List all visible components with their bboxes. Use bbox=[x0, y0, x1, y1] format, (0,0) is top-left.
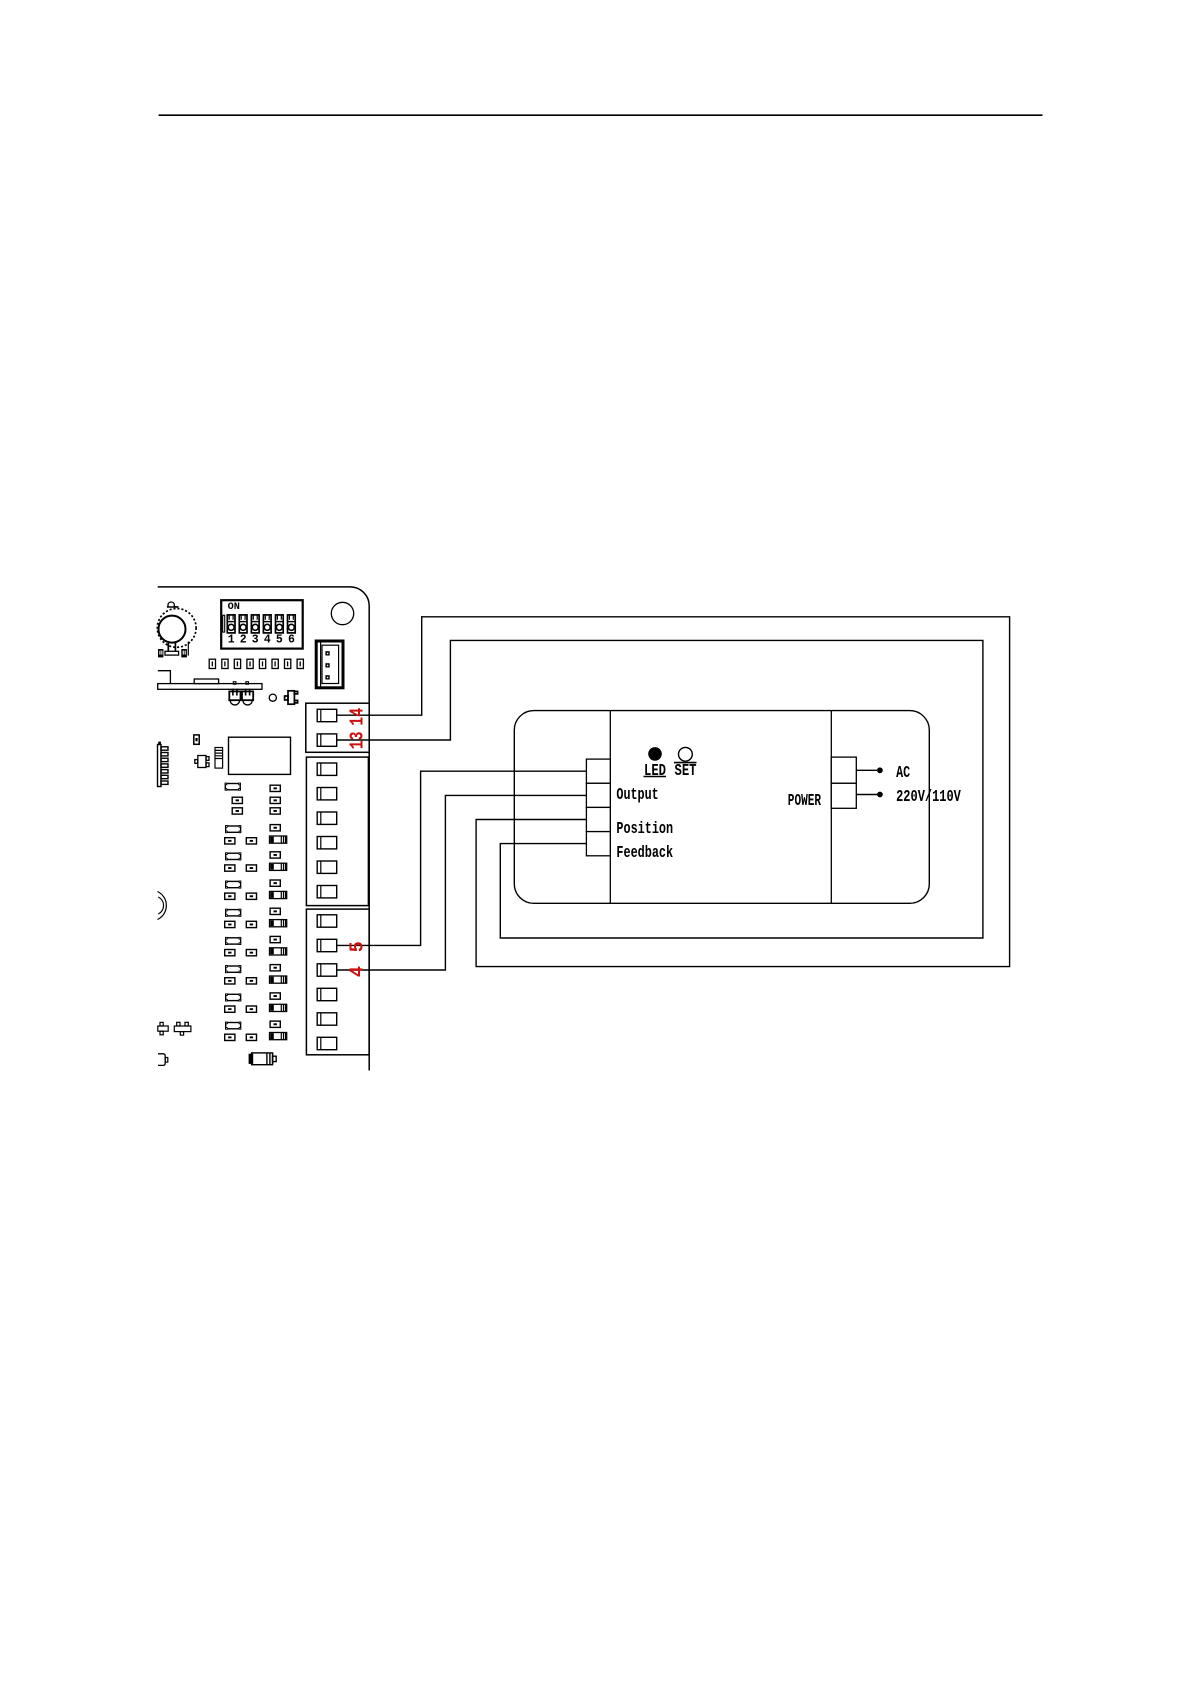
box left pin Output2 bbox=[586, 783, 610, 807]
AC lead wire bbox=[856, 769, 877, 771]
resistor row bbox=[209, 659, 303, 668]
J4 pins bbox=[317, 763, 337, 898]
svg-text:AC: AC bbox=[896, 764, 910, 783]
transistor Q2 bbox=[195, 756, 209, 768]
terminal block J5 bbox=[306, 909, 369, 1055]
SET button bbox=[679, 747, 693, 761]
jumper JP1 bbox=[158, 1022, 168, 1034]
svg-text:SET: SET bbox=[675, 762, 697, 781]
small square D1 bbox=[194, 735, 199, 744]
SMD group 2 bbox=[225, 852, 287, 871]
electrolytic capacitor C10 bbox=[249, 1053, 276, 1065]
SMD group 7 bbox=[225, 993, 287, 1012]
svg-text:Output: Output bbox=[616, 786, 658, 805]
svg-text:6: 6 bbox=[288, 633, 295, 646]
DIP switch SW1 bbox=[221, 600, 303, 648]
svg-text:13: 13 bbox=[347, 732, 369, 750]
svg-text:2: 2 bbox=[240, 633, 247, 646]
controller box outline bbox=[514, 711, 929, 904]
PCB board outline bbox=[158, 587, 370, 1071]
test point TP1 bbox=[269, 694, 276, 701]
svg-text:1: 1 bbox=[228, 633, 235, 646]
svg-text:POWER: POWER bbox=[788, 792, 822, 811]
box right pin AC2 bbox=[831, 783, 856, 808]
connector J6 (edge comb) bbox=[158, 742, 169, 787]
mounting hole bbox=[331, 602, 353, 624]
svg-text:4: 4 bbox=[264, 633, 271, 646]
svg-text:5: 5 bbox=[347, 941, 369, 952]
svg-text:14: 14 bbox=[347, 708, 369, 726]
svg-text:220V/110V: 220V/110V bbox=[896, 788, 961, 807]
jumper JP2 bbox=[174, 1022, 191, 1035]
SMD group 3 bbox=[225, 880, 287, 899]
svg-text:ON: ON bbox=[228, 601, 240, 613]
connector J2 (3-pin) bbox=[316, 641, 343, 688]
box left pin Feedback bbox=[586, 832, 610, 856]
SMD group 5 bbox=[225, 936, 287, 955]
header rule bbox=[159, 114, 1043, 116]
box left pin Position bbox=[586, 807, 610, 831]
wire pin14 to Position bbox=[337, 617, 1010, 967]
J5 pins bbox=[317, 915, 337, 1050]
terminal block J3 bbox=[306, 703, 369, 752]
SMD group 6 bbox=[225, 965, 287, 984]
box right divider bbox=[830, 710, 832, 903]
box right pin AC1 bbox=[831, 757, 856, 783]
bracket component bbox=[158, 1054, 165, 1066]
capacitor C2 bbox=[242, 682, 253, 705]
svg-text:Position: Position bbox=[616, 820, 673, 839]
wire pin4 to Output2 bbox=[337, 795, 587, 970]
J3 pin 13 bbox=[317, 734, 337, 746]
SMD group A bbox=[225, 783, 241, 791]
IC bar U2 bbox=[158, 671, 262, 690]
terminal block J4 bbox=[306, 757, 368, 906]
wire pin13 to Feedback bbox=[337, 640, 983, 938]
SMD group 4 bbox=[225, 908, 287, 927]
box left pin Output1 bbox=[586, 759, 610, 783]
transistor Q1 bbox=[285, 691, 298, 704]
potentiometer VR1 bbox=[157, 602, 196, 657]
relay K1 bbox=[229, 737, 291, 774]
LED indicator bbox=[648, 747, 662, 761]
220V lead wire bbox=[856, 794, 877, 796]
svg-text:Feedback: Feedback bbox=[616, 844, 673, 863]
svg-text:5: 5 bbox=[276, 633, 283, 646]
SMD group 8 bbox=[225, 1021, 287, 1040]
J3 pin 14 bbox=[317, 709, 337, 721]
svg-text:4: 4 bbox=[347, 966, 369, 977]
svg-text:LED: LED bbox=[644, 762, 666, 781]
SMD group 1 bbox=[225, 825, 287, 844]
inductor L1 bbox=[215, 748, 223, 769]
capacitor C1 bbox=[229, 682, 240, 705]
crystal arcs bbox=[158, 892, 167, 920]
DIP switch positions 1-6 bbox=[227, 615, 295, 633]
box left divider bbox=[609, 710, 611, 903]
wire pin5 to Output1 bbox=[337, 771, 587, 945]
svg-text:3: 3 bbox=[252, 633, 259, 646]
